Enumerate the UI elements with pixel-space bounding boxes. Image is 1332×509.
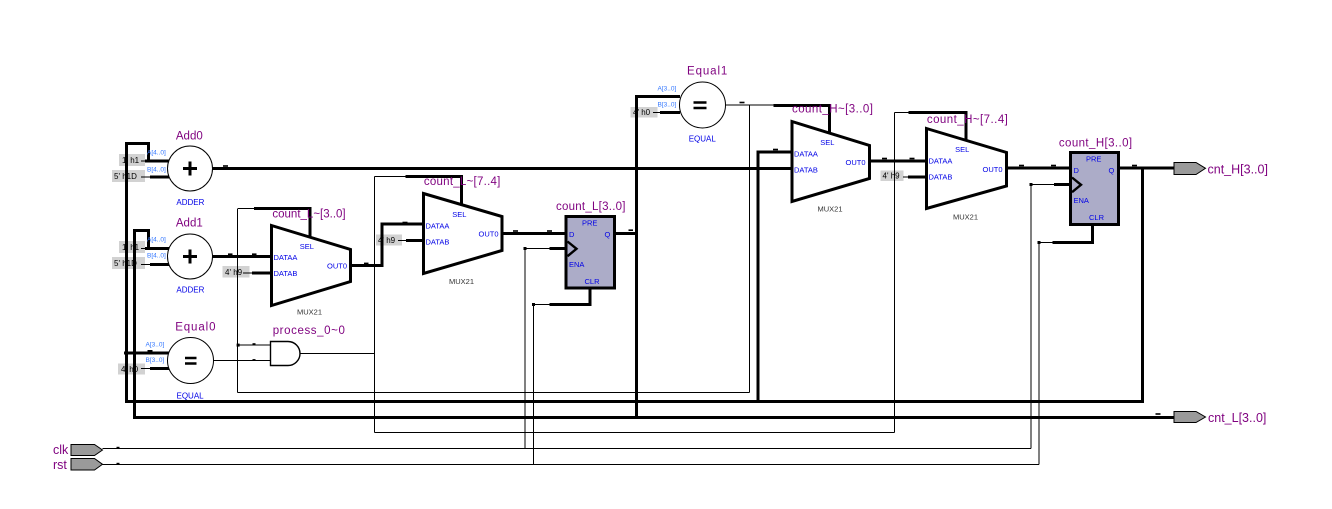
svg-text:1' h1: 1' h1	[122, 243, 140, 252]
svg-text:ADDER: ADDER	[176, 198, 204, 207]
wire Add1 A-input hook	[133, 229, 169, 249]
wire count_H~[3..0] SEL stub	[774, 104, 832, 134]
wire count_H~[7..4] SEL stub	[909, 111, 968, 141]
svg-text:DATAB: DATAB	[794, 166, 818, 175]
svg-text:SEL: SEL	[820, 138, 834, 147]
svg-text:OUT0: OUT0	[983, 165, 1003, 174]
adder Add1	[147, 218, 213, 295]
svg-text:PRE: PRE	[1086, 155, 1101, 164]
net tick count_L Q wire	[629, 229, 634, 231]
wire rst net	[103, 243, 1053, 465]
svg-text:ENA: ENA	[569, 260, 584, 269]
svg-text:count_L~[7..4]: count_L~[7..4]	[424, 176, 501, 188]
svg-text:MUX21: MUX21	[818, 205, 843, 214]
junction dot rst near pin	[117, 463, 120, 465]
wire Equal0 A-input from count_H bus	[124, 352, 169, 355]
junction dot AND input 2	[253, 359, 256, 361]
svg-text:rst: rst	[53, 458, 67, 472]
svg-text:DATAB: DATAB	[929, 173, 953, 182]
net tick Equal1 output	[740, 102, 745, 104]
svg-text:Q: Q	[605, 230, 611, 239]
wire count_H~[7..4] DATAB from 4'h9	[908, 176, 927, 179]
wire count_L~[7..4] OUT0 to count_L[3..0] D	[502, 232, 566, 235]
wire Add1 output to count_L~[3..0] DATAA	[213, 255, 272, 258]
wire Add0 A-input hook	[125, 142, 169, 161]
svg-text:Equal1: Equal1	[687, 66, 728, 78]
svg-text:CLR: CLR	[585, 277, 601, 286]
svg-text:ADDER: ADDER	[176, 286, 204, 295]
input pin rst	[53, 458, 103, 472]
svg-text:ENA: ENA	[1074, 196, 1089, 205]
wire Add0 B-input	[150, 176, 169, 179]
value box 1'h1 (Add0 A)	[119, 154, 150, 166]
wire count_H~[7..4] OUT0 to count_H[3..0] D	[1007, 167, 1071, 170]
net tick count_H D wire 2	[1051, 165, 1056, 167]
input pin clk	[53, 443, 103, 457]
wire count_L[3..0] CLR stub	[550, 288, 592, 306]
mux count_H~[7..4] MUX21	[927, 114, 1009, 222]
net tick count_H~[3..0] OUT0 wire 1	[882, 158, 887, 160]
svg-text:4' h0: 4' h0	[121, 365, 139, 374]
wire Add0 output bus to count_H~[3..0] DATAB	[213, 167, 793, 170]
comparator Equal1	[658, 66, 729, 144]
wire count_H[3..0] CLR stub	[1053, 224, 1095, 244]
wire AND gate input 1	[238, 344, 271, 346]
wire clk net	[103, 185, 1055, 449]
wire Add1 B-input	[150, 263, 169, 266]
adder Add0	[147, 131, 213, 208]
wire Equal1 B-input from 4'h0	[660, 111, 680, 114]
wire count_L~[7..4] SEL stub	[406, 175, 464, 206]
svg-text:B[4..0]: B[4..0]	[147, 167, 166, 174]
value box 5'h1D (Add0 B)	[112, 170, 150, 182]
svg-text:SEL: SEL	[300, 242, 314, 251]
junction dot count_L clock elbow	[524, 247, 527, 250]
wire count_H[3..0] Q to cnt_H pin	[1118, 167, 1175, 170]
net tick count_L~[3..0] OUT0 wire	[364, 263, 369, 265]
svg-text:1' h1: 1' h1	[122, 156, 140, 165]
net tick cnt_L bus near pin	[1156, 413, 1161, 415]
wire count_L[3..0] clock stub	[550, 247, 567, 250]
value box 4'h9 (count_H~[7..4] DATAB)	[881, 171, 909, 182]
wire count_H~[3..0] DATAA riser from count_H bus	[757, 152, 793, 403]
net tick Add0 output	[223, 165, 228, 167]
svg-text:Equal0: Equal0	[175, 322, 216, 334]
output pin cnt_H[3..0]	[1174, 163, 1268, 177]
junction dot clk near pin	[117, 447, 120, 449]
wire bus count_H feedback vertical left	[125, 144, 128, 403]
svg-text:SEL: SEL	[955, 145, 969, 154]
net tick count_H Q wire	[1132, 165, 1137, 167]
wire count_L bus vertical	[635, 95, 638, 419]
output pin cnt_L[3..0]	[1174, 411, 1266, 425]
wire count_H bus vertical right	[1141, 168, 1144, 403]
net tick count_H D wire 1	[1019, 165, 1024, 167]
mux count_L~[3..0] U-MUX21	[272, 209, 351, 317]
wire count_L~[7..4] DATAB from 4'h9	[406, 239, 424, 242]
net tick Add1 output 2	[252, 253, 257, 255]
wire count_L[3..0] Q to count_L bus	[615, 232, 639, 235]
svg-text:OUT0: OUT0	[479, 230, 499, 239]
wire count_L~[3..0] OUT0 to count_L~[7..4] DATAA	[351, 223, 425, 267]
wire count_L~[3..0] SEL stub	[238, 207, 312, 238]
junction dot count_L CLR elbow	[532, 303, 535, 306]
wire Equal1 output loop net	[238, 105, 775, 393]
wire Equal0 output to AND gate	[214, 360, 271, 362]
svg-text:process_0~0: process_0~0	[273, 325, 346, 337]
svg-text:count_H~[3..0]: count_H~[3..0]	[792, 104, 873, 116]
value box 5'h1D (Add1 B)	[112, 257, 150, 269]
svg-text:DATAB: DATAB	[426, 238, 450, 247]
net tick Add1 output 1	[228, 253, 233, 255]
svg-text:Q: Q	[1109, 166, 1115, 175]
mux count_L~[7..4] MUX21	[424, 176, 503, 286]
svg-text:count_L[3..0]: count_L[3..0]	[556, 201, 626, 213]
svg-text:OUT0: OUT0	[327, 262, 347, 271]
svg-text:count_H[3..0]: count_H[3..0]	[1059, 138, 1133, 150]
svg-text:B[3..0]: B[3..0]	[146, 357, 165, 364]
net tick Equal0 A wire	[148, 350, 153, 352]
wire process_0~0 net vertical and fanout	[375, 113, 910, 433]
svg-text:DATAA: DATAA	[274, 253, 298, 262]
net tick count_H~[3..0] OUT0 wire 2	[910, 158, 915, 160]
svg-text:SEL: SEL	[452, 210, 466, 219]
svg-text:A[4..0]: A[4..0]	[147, 150, 166, 157]
svg-text:A[3..0]: A[3..0]	[658, 86, 677, 93]
value box 4'h0 (Equal0 B)	[118, 364, 150, 375]
junction dot AND input 1	[237, 343, 256, 346]
svg-text:count_H~[7..4]: count_H~[7..4]	[927, 114, 1008, 126]
wire Equal0 B-input from 4'h0	[150, 367, 169, 370]
svg-text:A[3..0]: A[3..0]	[146, 342, 165, 349]
junction dot count_H clock elbow	[1030, 183, 1033, 186]
value box 4'h9 (count_L~[7..4] DATAB)	[376, 235, 406, 246]
svg-text:EQUAL: EQUAL	[689, 135, 717, 144]
comparator Equal0	[146, 322, 217, 401]
wire bus count_L feedback vertical left	[133, 231, 136, 419]
net tick count_H~[3..0] DATAA	[773, 149, 778, 151]
svg-text:CLR: CLR	[1089, 213, 1105, 222]
svg-text:DATAA: DATAA	[929, 157, 953, 166]
svg-text:count_L~[3..0]: count_L~[3..0]	[272, 209, 345, 221]
net tick count_L D wire 2	[547, 230, 552, 232]
value box 1'h1 (Add1 A)	[119, 241, 150, 253]
svg-text:A[4..0]: A[4..0]	[147, 237, 166, 244]
wire count_H[3..0] clock stub	[1054, 183, 1071, 186]
svg-text:DATAA: DATAA	[794, 150, 818, 159]
svg-text:4' h9: 4' h9	[225, 268, 243, 277]
wire count_H~[3..0] OUT0 to count_H~[7..4] DATAA	[869, 160, 927, 163]
net tick count_L D wire 1	[513, 230, 518, 232]
svg-text:4' h9: 4' h9	[883, 172, 901, 181]
svg-text:MUX21: MUX21	[953, 213, 978, 222]
svg-text:Add1: Add1	[176, 218, 203, 230]
svg-text:MUX21: MUX21	[449, 277, 474, 286]
svg-text:clk: clk	[53, 443, 69, 457]
svg-text:DATAA: DATAA	[426, 222, 450, 231]
svg-text:cnt_L[3..0]: cnt_L[3..0]	[1208, 411, 1266, 425]
wire bus count_L feedback bottom horizontal to cnt_L pin	[133, 416, 1175, 419]
svg-text:B[3..0]: B[3..0]	[658, 102, 677, 109]
mux count_H~[3..0] MUX21	[792, 104, 873, 214]
flip-flop count_L[3..0]	[556, 201, 626, 288]
svg-text:EQUAL: EQUAL	[177, 392, 205, 401]
value box 4'h0 (Equal1 B)	[631, 107, 662, 118]
junction dot count_H CLR elbow	[1038, 241, 1041, 244]
svg-text:OUT0: OUT0	[846, 158, 866, 167]
wire count_L~[3..0] DATAB from 4'h9	[252, 272, 272, 275]
svg-text:Add0: Add0	[176, 131, 203, 143]
svg-text:MUX21: MUX21	[297, 308, 322, 317]
svg-text:D: D	[1074, 166, 1080, 175]
svg-text:B[4..0]: B[4..0]	[147, 253, 166, 260]
value box 4'h9 (count_L~[3..0] DATAB)	[223, 266, 253, 278]
flip-flop count_H[3..0]	[1059, 138, 1133, 225]
net tick count_L~[7..4] DATAA wire	[403, 222, 408, 224]
svg-text:cnt_H[3..0]: cnt_H[3..0]	[1208, 163, 1268, 177]
wire process_0~0 output	[300, 353, 375, 355]
svg-text:PRE: PRE	[582, 219, 597, 228]
svg-text:D: D	[569, 230, 575, 239]
and gate process_0~0	[271, 325, 346, 366]
wire bus count_H feedback bottom horizontal	[125, 400, 1144, 403]
svg-text:DATAB: DATAB	[274, 269, 298, 278]
wire Equal1 A-input	[635, 95, 680, 98]
